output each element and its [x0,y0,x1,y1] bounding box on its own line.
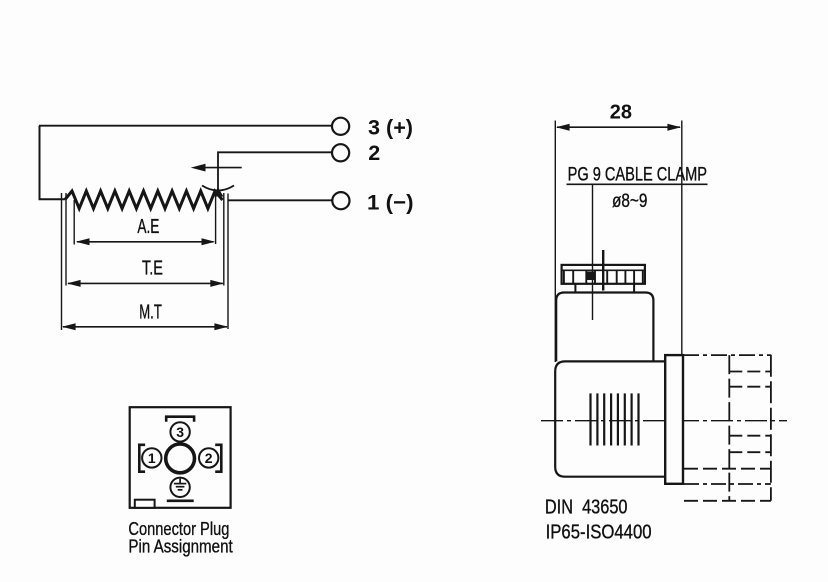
connector lower body [555,361,665,476]
dimension 28 extension left [554,121,556,363]
tick T.E left [65,193,67,286]
dimension 28 extension right [681,121,683,357]
connector plug square [130,407,231,508]
plug left bracket [139,445,145,472]
thread inner vertical [728,355,730,501]
hidden line at 468 [684,468,771,470]
hidden line bottom [684,500,771,502]
wiper direction arrow [203,167,242,169]
tick M.T right [227,194,229,330]
terminal 2 circle [332,144,349,161]
tick M.T left [61,193,63,330]
cap dark mark [587,272,595,281]
svg-text:3 (+): 3 (+) [368,115,413,139]
plug top bracket [166,417,194,422]
leader line to cable clamp [592,185,594,320]
dimension M.T [63,326,227,328]
gland cap (knurled nut) [562,265,645,284]
plug ground circle [170,478,189,497]
thread top hidden line [683,354,771,356]
tick T.E right [223,193,225,286]
dimension 28 line [557,126,680,128]
resistor element R (potentiometer track) [65,191,223,209]
svg-text:2: 2 [368,141,380,165]
thread horizontals upper [729,371,771,373]
wiper junction [213,188,224,197]
svg-text:PG 9 CABLE CLAMP: PG 9 CABLE CLAMP [568,164,707,186]
extension A.E left [73,200,75,245]
svg-text:ø8~9: ø8~9 [612,190,647,212]
terminal 1 circle [332,192,349,209]
label underline PG 9 CABLE CLAMP [567,183,708,185]
cap knurl lines [564,270,643,283]
cap neck [574,284,576,293]
plug pin 2 circle [199,448,218,467]
svg-text:IP65-ISO4400: IP65-ISO4400 [546,522,652,544]
vent grille [591,393,639,445]
plug keyway line [167,499,194,502]
thread right vertical [770,355,772,501]
centerline [541,420,787,422]
svg-text:DIN 43650: DIN 43650 [545,496,628,518]
svg-text:2: 2 [205,450,213,466]
svg-text:A.E: A.E [137,216,159,238]
wire to terminal 1 [229,199,333,201]
plug right bracket [215,445,221,472]
svg-text:Pin Assignment: Pin Assignment [128,536,232,557]
wiper contact arc [202,186,234,191]
dimension A.E [77,241,214,243]
plug center circle [166,444,195,473]
wiper wire from terminal 2 [218,152,332,194]
wire left rail [40,126,66,200]
hidden line at 484 [684,483,771,485]
terminal 3 circle [332,118,349,135]
svg-text:1: 1 [148,450,156,466]
plug bottom-left notch [135,500,155,508]
plug pin 1 circle [142,448,161,467]
cap centerline tick [602,250,604,291]
svg-text:3: 3 [176,424,184,440]
svg-text:28: 28 [610,102,632,124]
flange [665,355,683,484]
plug pin 3 circle [170,422,189,441]
plug ground symbol [174,479,186,490]
wire top to terminal 3 [39,125,332,127]
extension A.E right (wiper position) [215,196,217,244]
svg-text:M.T: M.T [139,302,162,324]
svg-text:T.E: T.E [142,258,163,280]
connector upper body [556,293,653,362]
dimension T.E [68,282,223,284]
thread horizontals lower [729,435,771,437]
svg-text:1 (−): 1 (−) [367,190,414,214]
